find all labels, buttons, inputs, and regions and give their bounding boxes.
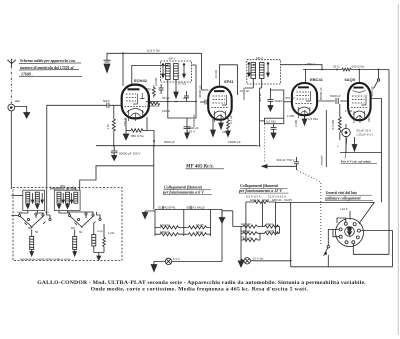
- svg-text:0,5 MΩ: 0,5 MΩ: [308, 117, 319, 121]
- wire from ant terminal: [15, 106, 27, 112]
- osc trimmer arrows: [62, 193, 73, 203]
- 12V rails vertical: [233, 202, 276, 258]
- filament header 6V: [162, 185, 204, 195]
- wire bus to V1 top: [122, 53, 124, 86]
- wire screen node: [146, 101, 196, 103]
- antenna symbol: [7, 59, 16, 67]
- ground under IF cap: [268, 106, 273, 112]
- svg-text:250 Ω: 250 Ω: [367, 113, 371, 122]
- svg-text:0,5 MΩ: 0,5 MΩ: [266, 120, 277, 124]
- grid coupling capacitor C into V1: [107, 103, 109, 108]
- ground under pot: [271, 133, 276, 139]
- svg-text:1 MΩ: 1 MΩ: [345, 109, 353, 113]
- svg-text:altoparl.: altoparl.: [320, 155, 324, 166]
- svg-text:ECH42: ECH42: [160, 223, 170, 227]
- osc grid resistor under V1: [150, 102, 160, 105]
- capacitor left mid under tube1 area: [184, 118, 191, 139]
- svg-text:saldature collegamenti: saldature collegamenti: [324, 197, 361, 201]
- svg-text:27k: 27k: [146, 87, 151, 91]
- MF-1 primary coil: [166, 64, 171, 80]
- svg-text:ECH42: ECH42: [134, 78, 148, 83]
- wire bus drop to V4: [358, 70, 360, 83]
- svg-text:+250 V: +250 V: [305, 62, 315, 66]
- svg-text:ECH42 EF41: ECH42 EF41: [158, 205, 176, 209]
- svg-text:ECH42 - EF41 - EBC41 - 6AQ5: ECH42 - EF41 - EBC41 - 6AQ5: [250, 198, 292, 202]
- svg-text:150 Ω: 150 Ω: [222, 130, 231, 134]
- ground under capacitor: [112, 156, 117, 161]
- aerial trimmer arrows: [31, 193, 43, 203]
- wire MF-2 to bus right: [281, 65, 323, 70]
- extra value labels: [17, 62, 371, 235]
- svg-text:10000 pF: 10000 pF: [228, 140, 241, 144]
- wire V1 plate to MF-1: [132, 65, 168, 85]
- svg-text:1 MΩ: 1 MΩ: [287, 114, 295, 118]
- detector wire MF-2 secondary down: [261, 79, 263, 89]
- svg-text:0,1 µF: 0,1 µF: [229, 115, 233, 124]
- svg-text:EBC41 6AQ5: EBC41 6AQ5: [187, 205, 205, 209]
- svg-text:0,5 MΩ: 0,5 MΩ: [331, 119, 335, 130]
- svg-text:50000 pF: 50000 pF: [319, 87, 323, 100]
- screen capacitor right of MF1: [184, 91, 189, 102]
- socket left wires: [328, 229, 339, 245]
- volume potentiometer box: [265, 118, 284, 124]
- socket key center: [345, 227, 355, 237]
- svg-text:100pF: 100pF: [275, 99, 284, 103]
- node junction dots: [122, 52, 360, 261]
- note text near electrolytic: [341, 160, 371, 164]
- ground 6V bottom: [151, 261, 157, 271]
- socket bottom-right wire loop: [353, 244, 389, 255]
- grid leak resistor R 1M under V1: [112, 105, 115, 132]
- svg-text:20000 pF: 20000 pF: [147, 104, 160, 108]
- dial lamp 12V: [244, 258, 250, 264]
- svg-text:27 kΩ: 27 kΩ: [178, 82, 187, 86]
- svg-text:17608 .: 17608 .: [21, 73, 33, 77]
- svg-text:12 V 1w: 12 V 1w: [253, 257, 265, 261]
- svg-text:12,6 V 5w: 12,6 V 5w: [147, 49, 161, 53]
- svg-text:75 Ω 1w: 75 Ω 1w: [241, 236, 253, 240]
- aerial coil L1: [26, 192, 30, 208]
- wire bus corner right down: [388, 70, 390, 255]
- svg-text:o.m.: o.m.: [17, 210, 23, 214]
- socket note text: [324, 191, 361, 201]
- svg-text:1 M: 1 M: [106, 124, 110, 130]
- caption line 2: [91, 286, 309, 292]
- handwritten note: [20, 59, 75, 77]
- filament resistor row2 left: [155, 233, 184, 236]
- wire bus drop to V3: [305, 70, 307, 83]
- svg-text:6AQ5: 6AQ5: [345, 77, 356, 82]
- svg-text:ECH42: ECH42: [241, 222, 251, 226]
- value labels scattered: [147, 77, 374, 134]
- svg-text:Onde medie, corte e cortissime: Onde medie, corte e cortissime. Media fr…: [91, 286, 309, 292]
- caption line 1: [37, 280, 366, 286]
- AVC decoupling capacitor: [111, 146, 118, 156]
- svg-text:850 Ω 5w: 850 Ω 5w: [131, 134, 145, 138]
- tuning coil unit dashed box: [13, 188, 122, 261]
- wire 196 node to 187 cap: [168, 102, 196, 119]
- socket right wires: [360, 231, 392, 267]
- dial lamp 6V: [165, 258, 171, 264]
- tube V1 ECH42: [122, 85, 149, 121]
- svg-text:regolazione nuclei onde medie: regolazione nuclei onde medie e corte: [20, 257, 71, 261]
- socket pins: [339, 222, 360, 244]
- IF transformer MF-2 box: [247, 60, 281, 84]
- IF transformer MF-1 box: [161, 61, 192, 82]
- svg-text:465: 465: [60, 184, 65, 188]
- screen bypass capacitor: [159, 84, 164, 94]
- 12V resistor row3: [241, 233, 260, 241]
- wire pot down: [273, 124, 275, 128]
- 12V resistor row1 right: [263, 225, 280, 228]
- ground arrows in box bottom: [97, 256, 101, 260]
- grid resistor V4: [338, 104, 341, 140]
- MF-2 left trimmer: [248, 63, 251, 77]
- svg-text:EF41: EF41: [196, 230, 204, 234]
- 12V resistor row2 right: [263, 227, 280, 235]
- decoupling capacitor at bus left: [104, 60, 111, 62]
- filament resistor row1 right: [184, 226, 211, 229]
- svg-text:100 Ω: 100 Ω: [162, 109, 171, 113]
- svg-text:10000: 10000: [154, 77, 158, 86]
- ground arrow at antenna: [24, 113, 30, 119]
- power switch: [324, 246, 330, 267]
- wire AVC to coil box (staircase): [80, 146, 154, 188]
- svg-text:ant: ant: [15, 99, 20, 103]
- supply switch top right: [374, 70, 380, 89]
- svg-text:50: 50: [79, 230, 83, 234]
- ground: [104, 64, 110, 73]
- svg-text:50000 pF 150 V: 50000 pF 150 V: [119, 151, 140, 155]
- MF-2 primary coil: [251, 63, 256, 79]
- ground 12V lamp: [238, 258, 244, 267]
- wire to V3 grid: [284, 101, 292, 103]
- svg-text:per funzionamento a 6 V: per funzionamento a 6 V: [162, 189, 204, 194]
- wire ant terminal down to coil box: [10, 111, 12, 189]
- svg-text:o.cc.: o.cc.: [97, 229, 104, 233]
- filament resistor row2 right: [184, 233, 211, 236]
- cathode line V4: [340, 137, 382, 153]
- wire detector frame: [245, 84, 284, 118]
- padder resistor: [103, 235, 106, 250]
- wire MF-2 primary down: [252, 79, 254, 85]
- svg-text:25 Ω: 25 Ω: [333, 64, 340, 68]
- oscillator coil L3: [57, 192, 61, 208]
- ground arrows under V2: [211, 119, 224, 137]
- tube V4 6AQ5: [348, 83, 371, 123]
- aerial coil unit frame: [23, 190, 45, 210]
- svg-text:10 kΩ: 10 kΩ: [214, 69, 218, 78]
- svg-text:( 25 µF 6 V ): ( 25 µF 6 V ): [357, 133, 374, 137]
- wire MF-1 primary down: [167, 80, 169, 102]
- svg-text:150 Ω 5w: 150 Ω 5w: [352, 64, 366, 68]
- node ant terminal: [8, 104, 15, 111]
- coupling capacitor: [336, 98, 338, 104]
- 6V rails vertical: [155, 209, 222, 261]
- padder capacitor: [92, 235, 96, 247]
- svg-text:6AQ5: 6AQ5: [266, 229, 274, 233]
- speaker field wire: [325, 110, 327, 167]
- svg-text:EBC41: EBC41: [241, 229, 251, 233]
- svg-text:GALLO-CONDOR - Mod. ULTRA-PL: GALLO-CONDOR - Mod. ULTRA-PLAT seconda s…: [37, 280, 366, 286]
- filament resistor row1 left: [155, 226, 184, 229]
- MF-1 secondary coil: [174, 64, 179, 80]
- svg-text:50pF: 50pF: [103, 99, 110, 103]
- tone capacitor at volume control: [294, 157, 299, 170]
- svg-text:1 kΩ: 1 kΩ: [108, 231, 115, 235]
- ground under V1 cathode: [123, 131, 129, 140]
- svg-text:150 Ω: 150 Ω: [123, 117, 127, 126]
- power socket outer: [336, 219, 364, 247]
- 6V top rail: [145, 209, 222, 211]
- svg-text:6,3 V: 6,3 V: [173, 257, 180, 261]
- electrolytic capacitor: [342, 124, 350, 137]
- oscillator coil L4: [66, 192, 70, 208]
- B+ bus right section: [303, 69, 389, 71]
- wires inside coil box lower: [28, 224, 104, 256]
- svg-text:MF-1: MF-1: [169, 57, 176, 61]
- +12,6 terminal stem: [349, 211, 351, 220]
- AVC arrow under MF-1 secondary: [174, 85, 178, 98]
- 12V resistor row2 left: [241, 232, 263, 235]
- wire oscillator section: [192, 65, 197, 102]
- svg-text:+: +: [337, 144, 339, 148]
- band switch wafer 2: [68, 213, 101, 228]
- svg-text:50 pF: 50 pF: [162, 96, 170, 100]
- 6V bottom wire: [154, 260, 222, 262]
- padder coil L6: [30, 237, 34, 257]
- svg-text:300 pF 750 V: 300 pF 750 V: [277, 158, 295, 162]
- wire osc unit top: [76, 188, 80, 190]
- svg-text:o.c.: o.c.: [45, 210, 50, 214]
- label MF 465 kc: [185, 165, 214, 170]
- oscillator coil unit frame: [54, 190, 80, 210]
- wire MF-1 secondary down: [175, 80, 177, 86]
- IF bypass capacitor: [268, 94, 274, 106]
- svg-text:Innesti visti dal lato: Innesti visti dal lato: [325, 191, 357, 195]
- cathode resistor V2: [226, 118, 230, 137]
- wire grid line to coil box: [47, 105, 122, 189]
- ground under electrolytic: [352, 137, 357, 151]
- MF-1 right trimmer: [183, 64, 186, 78]
- screen resistor under MF-1: [152, 86, 155, 98]
- wire to mid bus: [113, 133, 115, 146]
- 6V rail ticks: [163, 206, 191, 210]
- wires coils to switches: [20, 189, 101, 218]
- svg-text:50: 50: [35, 230, 39, 234]
- svg-text:MF-2: MF-2: [256, 56, 263, 60]
- svg-text:5000 pF: 5000 pF: [370, 86, 374, 97]
- tube V3 EBC41: [292, 83, 317, 119]
- 12V resistor row1 left: [233, 225, 263, 228]
- wire pot left to mid bus: [260, 120, 265, 122]
- svg-text:465 kc: 465 kc: [258, 93, 262, 102]
- capacitor under pot: [271, 128, 277, 134]
- svg-text:30000 pF: 30000 pF: [198, 85, 202, 98]
- wire antenna into coil unit: [11, 195, 22, 197]
- aerial coil L2: [35, 192, 39, 208]
- svg-text:5000 pF: 5000 pF: [330, 94, 341, 98]
- svg-text:EBC41: EBC41: [160, 230, 170, 234]
- 12V top rail with resistor: [246, 201, 276, 204]
- svg-text:+12,6: +12,6: [340, 207, 348, 211]
- svg-text:25000 pF: 25000 pF: [242, 87, 246, 100]
- ground left of 6V rail: [142, 211, 147, 219]
- MF-2 right trimmer: [267, 63, 270, 77]
- svg-text:EF41: EF41: [224, 79, 234, 84]
- antenna lead wire (dash-dot): [10, 66, 12, 104]
- right page edge shadow: [397, 4, 399, 335]
- MF-2 secondary coil: [259, 63, 264, 79]
- padder coil L7: [73, 237, 77, 257]
- svg-text:20000 pF: 20000 pF: [192, 114, 196, 127]
- svg-text:per funzionamento a 12 V: per funzionamento a 12 V: [238, 188, 282, 193]
- svg-text:2 MΩ: 2 MΩ: [294, 119, 298, 127]
- wire bus drop to V2: [202, 53, 209, 90]
- wire 12V lamp to bottom bus: [250, 202, 290, 266]
- socket top-left pin wire: [337, 218, 346, 223]
- B+ top bus wire: [107, 53, 202, 60]
- wire V4 plate right: [371, 99, 382, 203]
- svg-text:470 kΩ: 470 kΩ: [285, 96, 295, 100]
- svg-text:Schema valido per apparecchi c: Schema valido per apparecchi con: [20, 59, 75, 63]
- svg-text:EBC41: EBC41: [310, 77, 324, 82]
- svg-text:6AQ5: 6AQ5: [196, 223, 204, 227]
- AVC mid bus wire: [96, 145, 258, 147]
- volume control arrow: [262, 165, 297, 168]
- supply feed wire to socket: [276, 202, 375, 223]
- grid capacitor V2: [200, 100, 208, 105]
- coupling wire V3 to V4: [317, 100, 348, 102]
- cathode resistor under V1: [126, 117, 155, 146]
- dropper resistor in bus: [342, 68, 351, 71]
- tube V2 EF41: [208, 87, 232, 122]
- bottom bus wire: [291, 266, 393, 268]
- mechanical link dotted to switch: [265, 125, 321, 247]
- wire V2 grid top frame: [219, 65, 237, 95]
- svg-text:5000 pF: 5000 pF: [164, 140, 175, 144]
- wire down to filament rail: [153, 166, 155, 210]
- filament header 12V: [238, 183, 282, 193]
- pointer line: [345, 138, 347, 159]
- svg-text:EF41: EF41: [266, 222, 274, 226]
- ground left of 12V rail: [219, 211, 233, 223]
- oscillator coil L5: [74, 192, 78, 203]
- svg-text:Per 6 V col. sul telaio: Per 6 V col. sul telaio: [341, 160, 371, 164]
- band switch wafer 1: [11, 213, 51, 228]
- MF-1 left trimmer: [162, 64, 165, 78]
- ground under V3: [302, 115, 307, 125]
